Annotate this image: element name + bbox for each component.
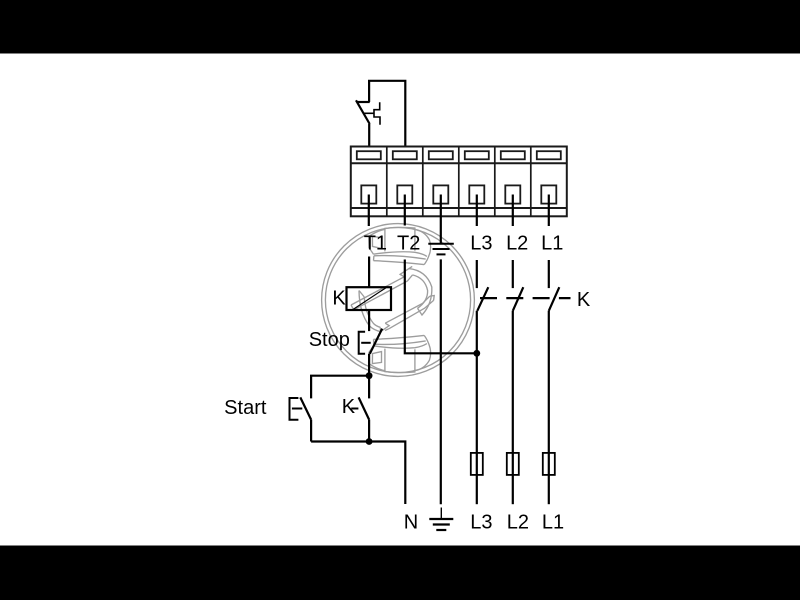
wire fuse to L1 supply label [548, 453, 550, 504]
wire from terminal PE down to earth symbol [440, 195, 442, 244]
wire L2 label to main contact [512, 260, 514, 288]
terminal block cell dividers [387, 147, 531, 217]
terminal T2 screw box [397, 185, 412, 203]
thermal overload heater element [374, 102, 380, 124]
Stop pushbutton actuator link [361, 342, 371, 344]
svg-text:L2: L2 [506, 233, 528, 255]
terminal PE clamp flag [429, 151, 453, 159]
contactor K main contact blade pole L3 [477, 287, 488, 311]
terminal L3 clamp flag [465, 151, 489, 159]
wire L2 contact to fuse [512, 311, 514, 453]
wire L3 label to main contact [476, 260, 478, 288]
terminal L1 clamp flag [537, 151, 561, 159]
bottom rail wire from Start branch to N drop [311, 442, 405, 505]
svg-text:Stop: Stop [309, 329, 350, 351]
svg-text:Start: Start [224, 397, 267, 419]
wire L1 contact to fuse [548, 311, 550, 453]
Stop pushbutton actuator bracket [359, 332, 365, 354]
node C junction dot on L3 wire [473, 350, 480, 357]
wire T2 label down and right to L3 node [405, 260, 477, 354]
wire fuse to L2 supply label [512, 453, 514, 504]
fuse F2 on L2 [507, 453, 519, 475]
wire from terminal T1 down to label [368, 195, 370, 227]
wire Stop button to node A and on to K aux contact [368, 354, 370, 399]
svg-text:L3: L3 [470, 233, 492, 255]
svg-text:L3: L3 [470, 511, 492, 533]
terminal PE screw box [433, 185, 448, 203]
contactor coil K box [347, 287, 392, 310]
supply earth ground symbol [429, 508, 453, 531]
terminal L1 screw box [541, 185, 556, 203]
wire fuse to L3 supply label [476, 453, 478, 504]
svg-text:T1: T1 [364, 233, 387, 255]
contactor K main contact blade pole L2 [513, 287, 524, 311]
svg-text:N: N [404, 511, 418, 533]
watermark logo [322, 224, 475, 377]
K aux contact link dash [351, 408, 358, 410]
svg-text:T2: T2 [397, 233, 420, 255]
svg-text:L2: L2 [507, 511, 529, 533]
wire K aux contact to node B [368, 420, 370, 442]
terminal T1 clamp flag [357, 151, 381, 159]
terminal T2 clamp flag [393, 151, 417, 159]
contactor coil K diagonal [353, 288, 386, 310]
svg-text:L1: L1 [542, 511, 564, 533]
node B junction dot [366, 438, 373, 445]
wire Start button down to bottom rail [310, 420, 312, 442]
wire from terminal L3 down to label [476, 195, 478, 227]
terminal L2 screw box [505, 185, 520, 203]
wire from terminal L1 down to label [548, 195, 550, 227]
terminal T1 screw box [361, 185, 376, 203]
thermal overload trip link [364, 112, 374, 114]
terminal block outline [351, 147, 567, 217]
svg-text:K: K [342, 396, 356, 418]
wire T1 label to contactor coil K [368, 257, 370, 288]
wire from overload contact down to terminal T1 top [368, 124, 370, 147]
Start pushbutton actuator bracket [290, 398, 299, 420]
Start pushbutton actuator link [292, 408, 302, 410]
wire from terminal T2 down to label [404, 195, 406, 226]
earth ground symbol at label row [428, 244, 454, 255]
fuse F3 on L3 [471, 453, 483, 475]
wire from terminal L2 down to label [512, 195, 514, 227]
wire L1 label to main contact [548, 260, 550, 288]
thermal overload relay NC contact: blade [356, 100, 370, 124]
contactor K mechanical linkage dashed line [480, 297, 571, 299]
fuse F1 on L1 [543, 453, 555, 475]
protective earth wire down to supply earth [440, 259, 442, 504]
svg-text:L1: L1 [541, 233, 563, 255]
contactor K main contact blade pole L1 [549, 287, 560, 311]
svg-text:K: K [577, 289, 591, 311]
node A junction dot [366, 372, 373, 379]
thermal overload relay NC contact: fixed contact jog [357, 101, 370, 103]
contactor auxiliary NO contact K blade [359, 397, 370, 419]
svg-text:K: K [332, 288, 346, 310]
terminal L3 screw box [469, 185, 484, 203]
terminal L2 clamp flag [501, 151, 525, 159]
Start pushbutton NO contact blade [300, 397, 311, 419]
wire coil K to Stop button [368, 310, 370, 331]
wire L3 contact to fuse [476, 311, 478, 453]
wire bridge from T1 top over overload contact to T2 top [369, 81, 405, 147]
wire node A left and down to Start button [311, 376, 369, 399]
Stop pushbutton NC contact blade [370, 329, 382, 354]
